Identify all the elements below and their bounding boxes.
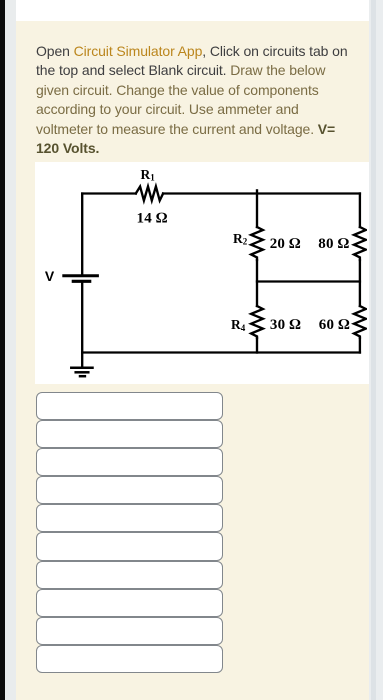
- wire bottom: [82, 351, 360, 353]
- resistor R2 20ohm (vertical zigzag): [251, 227, 263, 260]
- resistor 80ohm (vertical zigzag): [354, 227, 366, 260]
- wire right branch center: [359, 260, 361, 306]
- svg-text:R4: R4: [231, 317, 246, 333]
- svg-text:30 Ω: 30 Ω: [270, 317, 301, 333]
- wire left vertical: battery to ground: [81, 283, 83, 367]
- wire left vertical: top to battery: [81, 194, 83, 275]
- resistor 60ohm (vertical zigzag): [354, 306, 366, 338]
- battery V minus plate: [73, 280, 89, 283]
- wire right branch lower: [359, 338, 361, 353]
- resistor R4 30ohm (vertical zigzag): [251, 306, 263, 338]
- ground bar 3: [80, 375, 85, 378]
- svg-text:60 Ω: 60 Ω: [319, 317, 350, 333]
- resistor R1 14ohm (horizontal zigzag): [136, 187, 163, 201]
- wire top: battery+ to R1: [82, 192, 136, 194]
- instruction paragraph: [36, 42, 366, 159]
- svg-text:14 Ω: 14 Ω: [137, 211, 168, 227]
- wire top: R1 to right branch: [163, 192, 360, 194]
- ground bar 2: [76, 371, 89, 374]
- svg-text:80 Ω: 80 Ω: [318, 236, 349, 252]
- left black edge strip: [0, 0, 5, 700]
- answer boxes stack: [36, 392, 223, 674]
- circuit schematic panel (white): [35, 162, 369, 385]
- wire middle branch center: [256, 260, 258, 306]
- wire middle branch upper: [256, 190, 258, 227]
- svg-text:R1: R1: [141, 167, 156, 183]
- wire middle branch lower: [256, 338, 258, 353]
- svg-text:20 Ω: 20 Ω: [270, 236, 301, 252]
- right scrollbar gutter: [369, 0, 383, 700]
- battery V plus plate: [64, 274, 98, 277]
- svg-text:R2: R2: [233, 231, 248, 247]
- wire middle horizontal: [257, 280, 360, 282]
- svg-text:V: V: [45, 268, 55, 284]
- wire right branch upper: [359, 194, 361, 228]
- left gray gutter: [5, 0, 16, 700]
- white top band: [16, 0, 369, 21]
- ground bar 1: [71, 367, 92, 370]
